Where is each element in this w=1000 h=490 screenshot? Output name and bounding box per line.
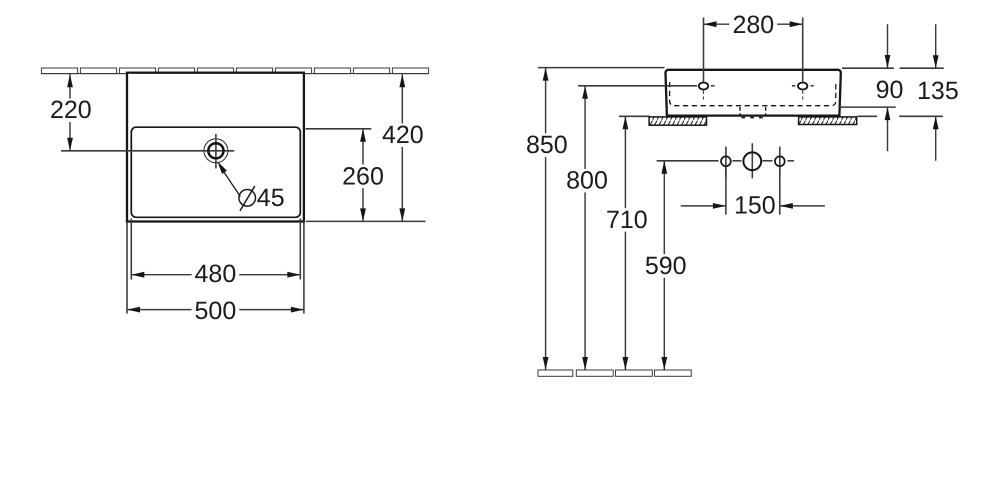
dimension 590 label	[642, 254, 690, 278]
dimension 135 arrow up	[933, 116, 939, 129]
tap hole bold circle	[208, 143, 223, 158]
middle fixation hole vertical centreline	[751, 143, 753, 178]
svg-text:90: 90	[876, 76, 904, 104]
dimension 500 arrow left	[127, 307, 140, 313]
right mounting hole	[798, 83, 807, 90]
dimension 800 line	[584, 86, 586, 370]
floor line - segmented band	[538, 370, 691, 376]
dimension 850 line	[545, 68, 547, 370]
dimension 280 arrow right	[790, 21, 803, 27]
hidden drain outline left dash	[739, 107, 741, 115]
dimension 150 left tail	[681, 205, 726, 207]
svg-text:420: 420	[382, 121, 424, 149]
extension line outer left	[126, 223, 128, 314]
basin outer outline (top view) 500x420	[127, 73, 304, 222]
dimension 150 arrow left	[780, 203, 793, 209]
right fixation hole	[775, 156, 785, 166]
dimension 710 arrow down	[623, 357, 629, 370]
left fixation hole vertical centreline	[725, 147, 727, 178]
dimension 135 arrow down	[933, 55, 939, 68]
extension line left mounting hole	[703, 18, 705, 82]
dimension 850 label	[523, 133, 571, 157]
svg-text:150: 150	[734, 191, 776, 219]
dimension 135 label	[914, 80, 962, 104]
dimension 850 arrow up	[543, 68, 549, 81]
dimension 280 arrow left	[704, 21, 717, 27]
fixation holes centreline	[657, 160, 719, 162]
svg-text:800: 800	[566, 167, 608, 195]
svg-text:500: 500	[195, 297, 237, 325]
dimension 480 label	[192, 262, 240, 286]
dimension 420 line	[401, 74, 403, 221]
extension line inner right	[299, 218, 301, 279]
dimension 590 arrow down	[661, 357, 667, 370]
dimension 220 arrow down	[67, 138, 73, 151]
extension line bracket top right a	[858, 115, 878, 117]
svg-text:480: 480	[195, 260, 237, 288]
centreline dash right of right circle	[788, 160, 795, 162]
dimension 90 label	[873, 79, 907, 103]
dimension 420 arrow down	[399, 208, 405, 221]
dimension 90 line upper tail	[887, 24, 889, 68]
dimension 260 line	[362, 129, 364, 222]
dimension 135 line upper tail	[935, 24, 937, 68]
right fixation hole vertical centreline	[779, 147, 781, 178]
basin body (front view)	[665, 70, 840, 116]
hidden drain outline right dash	[765, 107, 767, 115]
dimension 220 line	[69, 74, 71, 151]
extension line bracket top left	[619, 115, 650, 117]
right mounting hole dashed below	[802, 91, 804, 100]
dimension 500 arrow right	[291, 307, 304, 313]
dimension 590 arrow up	[661, 161, 667, 174]
dimension 135 line lower tail	[935, 116, 937, 160]
left mounting hole	[699, 83, 708, 90]
dimension 150 label	[731, 194, 779, 218]
right hole right tick	[811, 85, 814, 87]
extension line right fixation hole	[779, 166, 781, 214]
left fixation hole	[721, 156, 731, 166]
dimension 280 line	[704, 23, 803, 25]
extension line bowl front edge	[306, 128, 372, 130]
dimension 800 label	[563, 169, 611, 193]
hidden bowl outline (dashed)	[670, 82, 836, 106]
wall line (top view) - segmented wall band with continuous base line	[41, 68, 428, 74]
left hole right tick	[711, 85, 715, 87]
dimension 420 arrow up	[399, 74, 405, 87]
svg-text:45: 45	[257, 184, 285, 212]
svg-text:135: 135	[917, 77, 959, 105]
dimension 710 arrow up	[623, 116, 629, 129]
dimension 480 arrow right	[287, 272, 300, 278]
right hole left tick	[792, 85, 795, 87]
centreline tick between mid+right circles	[763, 160, 773, 162]
dimension 800 arrow up	[582, 86, 588, 99]
extension line basin bottom right	[306, 220, 426, 222]
extension line basin top left	[538, 67, 665, 69]
extension line bowl bottom right	[841, 106, 896, 108]
right wall bracket (hatched)	[799, 117, 857, 125]
extension line inner left	[130, 218, 132, 279]
diameter symbol slash	[240, 186, 255, 211]
dimension 710 line	[624, 116, 626, 370]
diameter symbol circle	[239, 190, 256, 207]
tap-hole centreline vertical	[215, 134, 217, 169]
extension line through tap-hole centre	[61, 150, 234, 152]
dimension 800 arrow down	[582, 357, 588, 370]
dimension 500 label	[192, 299, 240, 323]
hidden drain below-bottom dashes	[742, 117, 764, 119]
left mounting hole dashed below	[703, 91, 705, 100]
dimension 150 arrow right	[713, 203, 726, 209]
leader arrowhead	[217, 161, 227, 174]
tap hole outer circle	[204, 139, 228, 163]
dimension 90 line lower tail	[887, 107, 889, 151]
dimension 220 arrow up	[67, 74, 73, 87]
dimension 710 label	[603, 208, 651, 232]
extension line basin top right a	[842, 67, 894, 69]
dimension 500 line	[127, 309, 304, 311]
dimension 420 label	[379, 123, 427, 146]
extension line basin top right b	[900, 67, 944, 69]
dimension 850 arrow down	[543, 357, 549, 370]
dimension 150 right tail	[780, 205, 825, 207]
dimension 480 line	[131, 274, 300, 276]
leader line for tap hole	[220, 166, 241, 197]
svg-text:590: 590	[645, 252, 687, 280]
svg-text:280: 280	[732, 11, 774, 39]
extension line left fixation hole	[725, 166, 727, 214]
dimension 90 arrow up	[885, 107, 891, 120]
dimension 590 line	[663, 161, 665, 370]
extension line through mounting holes	[578, 85, 697, 87]
dimension 260 arrow up	[360, 129, 366, 142]
extension line right mounting hole	[802, 18, 804, 82]
middle fixation hole (drain)	[743, 152, 761, 170]
extension line outer right	[303, 223, 305, 314]
svg-text:260: 260	[342, 162, 384, 190]
extension line bracket top right b	[899, 115, 943, 117]
dimension 280 label	[729, 13, 777, 36]
basin bowl inner outline (top view) 480 wide	[131, 127, 300, 217]
dimension 480 arrow left	[131, 272, 144, 278]
dimension 260 label	[339, 165, 387, 189]
left wall bracket (hatched)	[649, 117, 706, 125]
svg-text:850: 850	[526, 131, 568, 159]
dimension 220 label	[47, 99, 95, 123]
svg-text:710: 710	[606, 206, 648, 234]
dimension 90 arrow down	[885, 55, 891, 68]
centreline tick between left+mid circles	[733, 160, 742, 162]
dimension 260 arrow down	[360, 208, 366, 221]
svg-text:220: 220	[50, 96, 92, 124]
